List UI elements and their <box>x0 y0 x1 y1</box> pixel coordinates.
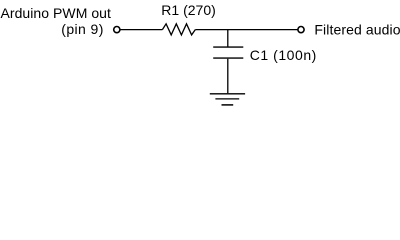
resistor R1 <box>162 24 195 35</box>
svg-text:Filtered audio: Filtered audio <box>314 22 400 38</box>
wire: capacitor to ground <box>227 59 229 93</box>
node: filtered audio output terminal <box>298 27 304 33</box>
ground <box>210 94 245 105</box>
capacitor C1 <box>213 47 243 58</box>
wire: resistor to output node (through junction) <box>195 29 297 31</box>
svg-text:C1 (100n): C1 (100n) <box>250 47 317 63</box>
svg-text:(pin 9): (pin 9) <box>61 21 103 37</box>
svg-text:Arduino PWM out: Arduino PWM out <box>1 5 112 21</box>
wire: input node to resistor <box>120 29 162 31</box>
node: PWM input terminal <box>114 27 120 33</box>
svg-text:R1 (270): R1 (270) <box>161 2 215 18</box>
wire: junction down to capacitor <box>227 30 229 47</box>
